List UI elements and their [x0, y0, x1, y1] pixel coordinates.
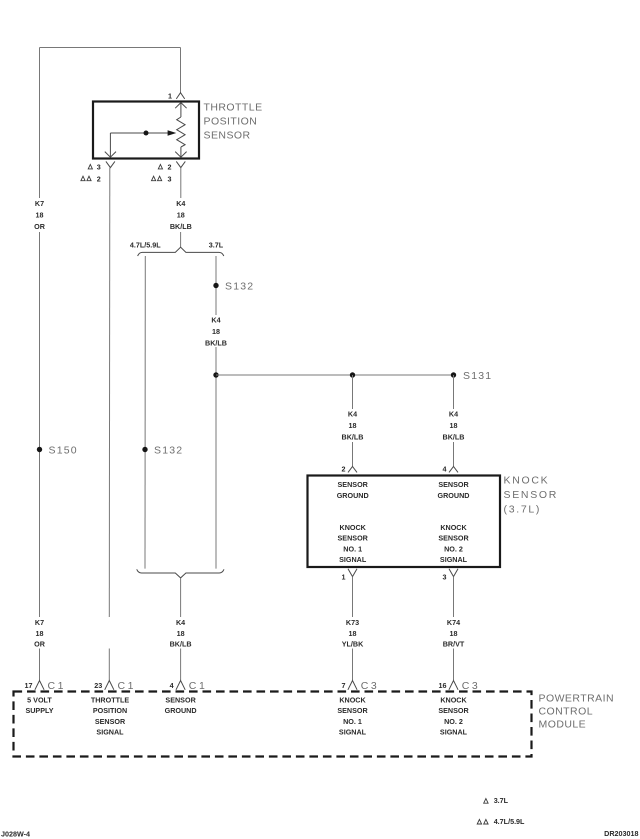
svg-text:1: 1	[342, 572, 346, 581]
svg-text:MODULE: MODULE	[539, 719, 587, 731]
svg-text:C1: C1	[48, 680, 67, 692]
svg-text:DR203018: DR203018	[604, 829, 638, 838]
PCM label knock sensor no.1 signal	[337, 695, 368, 736]
svg-text:NO. 1: NO. 1	[343, 717, 362, 726]
svg-text:K4: K4	[449, 410, 458, 419]
wire branch 3.7L vertical lower	[215, 347, 217, 569]
svg-text:KNOCK: KNOCK	[504, 475, 550, 487]
connector at TPS pin 1	[176, 93, 184, 99]
svg-text:J028W-4: J028W-4	[1, 830, 30, 839]
svg-text:SIGNAL: SIGNAL	[339, 728, 367, 737]
svg-text:GROUND: GROUND	[165, 706, 197, 715]
wire K4 from merge to PCM	[180, 578, 182, 680]
resistor TPS potentiometer	[175, 103, 186, 158]
svg-text:GROUND: GROUND	[337, 491, 369, 500]
svg-text:4.7L/5.9L: 4.7L/5.9L	[494, 817, 525, 826]
wire K7 middle vertical	[39, 232, 41, 617]
svg-text:SENSOR: SENSOR	[438, 706, 469, 715]
svg-text:YL/BK: YL/BK	[342, 640, 364, 649]
wire drop to knock sensor pin 2	[352, 375, 354, 466]
svg-text:BK/LB: BK/LB	[170, 222, 192, 231]
svg-text:18: 18	[177, 211, 185, 220]
PCM pin 7 connector C3	[342, 680, 380, 692]
svg-text:K7: K7	[35, 618, 44, 627]
svg-text:BK/LB: BK/LB	[342, 433, 364, 442]
wire branch 4.7L/5.9L vertical	[144, 256, 146, 569]
wire K7 upper vertical	[39, 48, 41, 199]
svg-text:S150: S150	[49, 445, 78, 457]
svg-text:1: 1	[168, 91, 172, 100]
svg-text:18: 18	[450, 629, 458, 638]
svg-text:POWERTRAIN: POWERTRAIN	[539, 693, 614, 705]
svg-text:18: 18	[349, 421, 357, 430]
pin 3 label knock bottom	[443, 572, 447, 581]
svg-text:POSITION: POSITION	[204, 115, 258, 127]
wire K4 below TPS	[180, 168, 182, 247]
powertrain control module dashed box	[14, 692, 532, 757]
junction dot at branch and horizontal wire	[213, 372, 218, 377]
connector below TPS right pin	[176, 161, 185, 167]
svg-text:2: 2	[342, 465, 346, 474]
wire K4 from top wire down to TPS pin 1	[180, 48, 182, 93]
svg-text:SIGNAL: SIGNAL	[440, 728, 468, 737]
svg-text:THROTTLE: THROTTLE	[91, 695, 130, 704]
knock box internal labels no.1	[337, 480, 369, 564]
connector below TPS left pin	[106, 161, 115, 167]
connector at knock pin 2	[348, 466, 357, 472]
label K74 18 BR/VT	[443, 618, 465, 649]
svg-text:BR/VT: BR/VT	[443, 640, 465, 649]
svg-text:SIGNAL: SIGNAL	[339, 555, 367, 564]
junction dot knock no.1 drop	[350, 372, 355, 377]
wire K7 lower vertical	[39, 649, 41, 681]
svg-text:23: 23	[94, 681, 102, 690]
svg-text:K4: K4	[176, 618, 185, 627]
svg-text:3.7L: 3.7L	[494, 796, 509, 805]
svg-text:S131: S131	[463, 370, 492, 382]
svg-text:KNOCK: KNOCK	[339, 695, 366, 704]
svg-text:18: 18	[349, 629, 357, 638]
svg-text:4.7L/5.9L: 4.7L/5.9L	[130, 240, 161, 249]
pin 2 label knock	[342, 465, 346, 474]
knock sensor box	[308, 476, 501, 568]
svg-text:S132: S132	[225, 281, 254, 293]
wire K22 from TPS wiper to PCM	[108, 168, 111, 681]
splice S132 right branch	[213, 281, 254, 293]
PCM pin 16 connector C3	[439, 680, 481, 692]
knock box internal labels no.2	[438, 480, 470, 564]
PCM pin 17 connector C1	[25, 680, 67, 692]
label K7 18 OR lower	[34, 618, 46, 649]
splice S132 left branch	[142, 445, 183, 457]
pin 1 label TPS	[168, 91, 172, 100]
throttle position sensor label	[204, 102, 263, 142]
label K4 18 BK/LB mid branch	[205, 316, 227, 348]
svg-text:OR: OR	[34, 640, 46, 649]
footer drawing number right	[604, 829, 638, 838]
label K4 18 BK/LB upper	[170, 199, 192, 231]
svg-text:18: 18	[36, 629, 44, 638]
svg-text:(3.7L): (3.7L)	[504, 504, 542, 516]
svg-text:K4: K4	[348, 410, 357, 419]
connector below knock pin 1	[348, 569, 357, 577]
label 4.7L/5.9L branch	[130, 240, 161, 249]
PCM label 5 volt supply	[25, 695, 53, 715]
svg-text:17: 17	[25, 681, 33, 690]
footnote marks TPS left pin	[81, 163, 101, 184]
wiper arrow of potentiometer	[105, 130, 177, 157]
svg-text:K74: K74	[447, 618, 460, 627]
legend double triangle 4.7L/5.9L	[477, 817, 525, 826]
svg-text:SENSOR: SENSOR	[165, 695, 196, 704]
PCM label knock sensor no.2 signal	[438, 695, 469, 736]
svg-text:SENSOR: SENSOR	[504, 489, 559, 501]
svg-text:BK/LB: BK/LB	[170, 640, 192, 649]
PCM label throttle position sensor signal	[91, 695, 130, 736]
svg-text:SENSOR: SENSOR	[438, 480, 469, 489]
label 3.7L branch	[209, 240, 224, 249]
svg-text:SENSOR: SENSOR	[204, 129, 251, 141]
svg-text:C3: C3	[462, 680, 481, 692]
svg-text:KNOCK: KNOCK	[440, 523, 467, 532]
svg-text:C3: C3	[361, 680, 380, 692]
wire horizontal to knock sensors	[216, 374, 454, 376]
svg-text:POSITION: POSITION	[93, 706, 127, 715]
svg-text:18: 18	[177, 629, 185, 638]
svg-text:SIGNAL: SIGNAL	[96, 728, 124, 737]
svg-text:K73: K73	[346, 618, 359, 627]
svg-text:NO. 2: NO. 2	[444, 544, 463, 553]
svg-text:18: 18	[36, 211, 44, 220]
svg-text:SENSOR: SENSOR	[337, 706, 368, 715]
splice S131	[451, 370, 493, 382]
svg-text:5 VOLT: 5 VOLT	[27, 695, 52, 704]
svg-text:16: 16	[439, 681, 447, 690]
PCM label sensor ground	[165, 695, 197, 715]
svg-text:BK/LB: BK/LB	[205, 339, 227, 348]
connector at knock pin 4	[449, 466, 458, 472]
svg-text:3: 3	[97, 163, 101, 172]
svg-text:3: 3	[443, 572, 447, 581]
svg-text:3.7L: 3.7L	[209, 240, 224, 249]
svg-text:K4: K4	[176, 199, 185, 208]
splice S150	[37, 445, 78, 457]
svg-text:4: 4	[443, 465, 447, 474]
legend single triangle 3.7L	[484, 796, 509, 805]
svg-text:S132: S132	[154, 445, 183, 457]
svg-text:NO. 1: NO. 1	[343, 544, 362, 553]
svg-text:18: 18	[450, 421, 458, 430]
svg-text:BK/LB: BK/LB	[443, 433, 465, 442]
svg-text:GROUND: GROUND	[438, 491, 470, 500]
throttle position sensor box	[93, 102, 199, 159]
footer drawing number left	[1, 830, 30, 839]
connector below knock pin 3	[449, 569, 458, 577]
svg-text:18: 18	[212, 327, 220, 336]
svg-text:SENSOR: SENSOR	[438, 534, 469, 543]
pin 4 label knock	[443, 465, 447, 474]
wire branch 3.7L vertical upper	[215, 256, 217, 315]
svg-text:C1: C1	[189, 680, 208, 692]
svg-text:7: 7	[342, 681, 346, 690]
svg-text:SENSOR: SENSOR	[338, 534, 369, 543]
svg-text:NO. 2: NO. 2	[444, 717, 463, 726]
label K4 18 BK/LB knock no.2	[443, 410, 465, 442]
wire drop to knock sensor pin 4	[453, 375, 455, 466]
footnote marks TPS right pin	[152, 163, 172, 184]
svg-text:SENSOR: SENSOR	[95, 717, 126, 726]
powertrain control module label	[539, 693, 614, 731]
wire K74 knock no.2 signal	[453, 577, 455, 681]
svg-text:KNOCK: KNOCK	[440, 695, 467, 704]
label K4 18 BK/LB lower	[170, 618, 192, 649]
label K7 18 OR upper	[34, 199, 46, 231]
svg-text:C1: C1	[118, 680, 137, 692]
svg-text:K7: K7	[35, 199, 44, 208]
svg-text:CONTROL: CONTROL	[539, 706, 594, 718]
svg-text:2: 2	[97, 174, 101, 183]
merge brace branches rejoin	[137, 569, 224, 578]
PCM pin 4 connector C1	[170, 680, 208, 692]
svg-text:K4: K4	[211, 316, 220, 325]
svg-text:SENSOR: SENSOR	[338, 480, 369, 489]
split brace	[138, 247, 224, 256]
wire K73 knock no.1 signal	[352, 577, 354, 681]
svg-text:4: 4	[170, 681, 174, 690]
label K73 18 YL/BK	[342, 618, 364, 649]
wire top horizontal from K7 to TPS pin 1	[40, 47, 181, 49]
svg-text:3: 3	[168, 174, 172, 183]
PCM pin 23 connector C1	[94, 680, 136, 692]
svg-text:SUPPLY: SUPPLY	[25, 706, 53, 715]
svg-text:THROTTLE: THROTTLE	[204, 102, 263, 114]
svg-text:KNOCK: KNOCK	[340, 523, 367, 532]
svg-text:OR: OR	[34, 222, 46, 231]
label K4 18 BK/LB knock no.1	[342, 410, 364, 442]
knock sensor box label	[504, 475, 559, 516]
pin 1 label knock bottom	[342, 572, 346, 581]
svg-text:2: 2	[168, 163, 172, 172]
svg-text:SIGNAL: SIGNAL	[440, 555, 468, 564]
